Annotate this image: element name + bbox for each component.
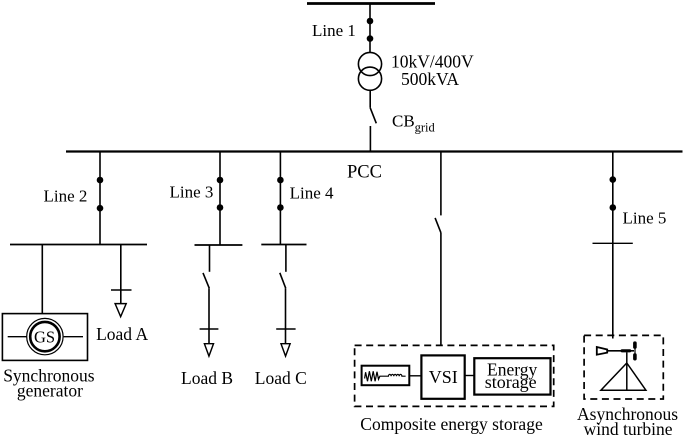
svg-text:Line 3: Line 3: [170, 183, 214, 202]
wire Line 5: [612, 153, 614, 339]
node dot on Line 3 (lower): [217, 204, 224, 211]
Load C feeder bus: [261, 244, 306, 246]
left feeder bus: [10, 244, 147, 246]
wind turbine blade lower: [633, 353, 637, 360]
wind turbine arm: [607, 350, 634, 352]
filter box F1: [362, 366, 410, 386]
wind turbine blade shaft: [634, 342, 636, 359]
composite energy storage dashed box: [355, 345, 554, 406]
node dot on Line 3 (upper): [217, 177, 224, 184]
wire Line 2: [99, 153, 101, 245]
Load A arrow: [115, 304, 126, 317]
svg-text:PCC: PCC: [347, 163, 382, 183]
wind turbine mast: [626, 352, 628, 390]
wire VSI to energy storage: [465, 375, 475, 377]
transformer T1 secondary winding: [358, 67, 381, 90]
node dot on Line 1 (upper): [367, 18, 374, 25]
switch S4 blade: [280, 273, 286, 288]
svg-text:VSI: VSI: [429, 367, 458, 387]
Load B tick: [200, 328, 219, 330]
wire Line 3: [219, 153, 221, 246]
svg-text:Load A: Load A: [96, 324, 148, 344]
node dot on Line 4 (upper): [277, 177, 284, 184]
circuit breaker CBgrid upper lead: [369, 90, 371, 108]
svg-text:storage: storage: [485, 372, 537, 392]
node dot on Line 5 (upper): [610, 176, 617, 183]
PCC bus: [66, 150, 683, 152]
switch S3 blade: [203, 273, 209, 288]
grid bus (top): [307, 2, 435, 5]
label Synchronous generator: [3, 365, 95, 400]
Load B feeder bus: [195, 244, 243, 246]
node dot on Line 2 (upper): [97, 177, 104, 184]
node dot on Line 5 (lower): [610, 204, 617, 211]
wire energy-storage feeder lower: [440, 233, 442, 346]
svg-text:GS: GS: [34, 328, 55, 347]
svg-text:500kVA: 500kVA: [401, 69, 459, 89]
svg-text:generator: generator: [17, 381, 83, 401]
wind turbine anemometer horn: [597, 347, 607, 355]
wire to synchronous generator: [41, 245, 43, 314]
svg-text:Load B: Load B: [181, 368, 233, 388]
synchronous generator G1: [2, 314, 87, 361]
circuit breaker CBgrid lower lead: [369, 126, 371, 152]
wire Load A drop: [120, 245, 122, 304]
svg-text:Load C: Load C: [255, 368, 307, 388]
switch S5 blade: [435, 218, 441, 233]
svg-text:Composite energy storage: Composite energy storage: [360, 414, 543, 434]
label CBgrid: [392, 111, 435, 134]
wind turbine nacelle: [621, 349, 632, 352]
asynchronous wind turbine dashed box: [584, 335, 663, 399]
svg-text:CB: CB: [392, 111, 415, 130]
svg-text:Line 5: Line 5: [623, 208, 667, 227]
wire filter to VSI: [409, 375, 421, 377]
wire energy-storage feeder upper: [440, 153, 442, 216]
svg-text:wind turbine: wind turbine: [584, 419, 673, 438]
wind turbine blade upper: [633, 341, 637, 348]
svg-text:Line 2: Line 2: [44, 187, 88, 206]
energy storage box: [474, 358, 550, 394]
transformer T1 primary winding: [358, 52, 381, 75]
wind turbine tower triangle: [601, 363, 646, 390]
switch S4 upper lead: [285, 245, 287, 272]
Load C tick: [276, 328, 295, 330]
Load B arrow: [204, 344, 213, 356]
VSI box U1: [421, 355, 464, 398]
svg-text:grid: grid: [415, 120, 436, 134]
wire Line 4: [279, 153, 281, 245]
filter squiggle: [365, 371, 406, 381]
node dot on Line 2 (lower): [97, 205, 104, 212]
node dot on Line 4 (lower): [277, 204, 284, 211]
Load C arrow: [281, 344, 290, 356]
label Asynchronous wind turbine: [577, 404, 678, 438]
circuit breaker CBgrid blade: [370, 108, 376, 124]
switch S3 upper lead: [209, 245, 211, 272]
svg-text:Line 4: Line 4: [290, 184, 334, 203]
Line 5 tick: [593, 242, 633, 244]
svg-text:Line 1: Line 1: [312, 21, 356, 40]
Load A tick: [111, 289, 132, 291]
wire Line 1: [369, 4, 371, 53]
node dot on Line 1 (lower): [367, 35, 374, 42]
wire Load B drop: [208, 288, 210, 343]
wire Load C drop: [285, 288, 287, 344]
